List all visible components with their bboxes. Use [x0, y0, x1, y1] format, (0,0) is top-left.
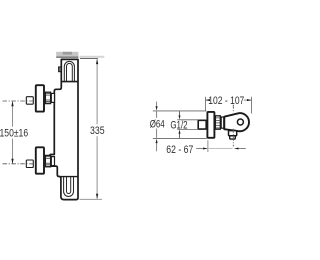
- upper valve ribbed connector: [45, 92, 50, 103]
- upper valve stem cap: [26, 97, 33, 105]
- svg-text:62 - 67: 62 - 67: [166, 144, 193, 156]
- G1/2 arrows: [179, 111, 181, 138]
- svg-text:Ø64: Ø64: [150, 119, 165, 131]
- upper valve handle: [36, 85, 44, 111]
- side clip on column: [59, 67, 62, 72]
- ribbed nut (side view): [215, 116, 220, 129]
- lower valve ribbed connector: [45, 155, 50, 166]
- dimension 335 bottom extension line: [80, 198, 103, 200]
- wall escutcheon (side view): [207, 112, 214, 138]
- 102-107 dimension line: [206, 99, 252, 101]
- 102-107 extension lines: [204, 97, 206, 111]
- dimension 335 line: [96, 59, 98, 199]
- G1/2 extension lines: [177, 119, 198, 121]
- svg-text:150±16: 150±16: [0, 127, 28, 139]
- top section inner U detail: [67, 63, 73, 81]
- bottom outlet inner U detail: [67, 177, 71, 194]
- upper valve collar: [51, 93, 54, 102]
- 62-67 extension line: [207, 140, 209, 152]
- bottom outlet outer U detail: [64, 177, 74, 197]
- centerline of shower outlet (top segment): [232, 105, 234, 112]
- centerline of shower outlet (bottom segment): [232, 129, 234, 147]
- upper valve centerline: [3, 100, 36, 102]
- lower valve centerline: [3, 163, 36, 165]
- valve body with circular head (side view): [224, 113, 249, 131]
- shower hose connector foot: [230, 136, 236, 139]
- top section outer U detail: [64, 61, 74, 81]
- lower valve collar: [51, 157, 54, 166]
- top cap separator line: [61, 81, 78, 83]
- mixer body outline (front view): [50, 59, 78, 199]
- shower hose connector block: [229, 131, 237, 136]
- lower valve handle: [36, 147, 44, 173]
- wall mounting bar (top): [56, 52, 78, 58]
- Ø64 extension lines: [153, 110, 207, 112]
- svg-text:102 - 107: 102 - 107: [208, 95, 244, 107]
- dimension 335 top extension line: [80, 56, 105, 59]
- svg-text:G1/2: G1/2: [170, 119, 187, 131]
- inlet square (G1/2 connection): [198, 120, 206, 129]
- collar (side view): [221, 117, 224, 128]
- Ø64 dimension line and arrows: [156, 102, 158, 152]
- lower valve stem cap: [26, 160, 33, 168]
- bottom recess line: [61, 176, 78, 178]
- svg-text:335: 335: [90, 125, 105, 137]
- 62-67 dimension line: [196, 147, 246, 149]
- dimension 150±16 line: [11, 101, 13, 164]
- outlet hole (inner circle): [237, 119, 243, 125]
